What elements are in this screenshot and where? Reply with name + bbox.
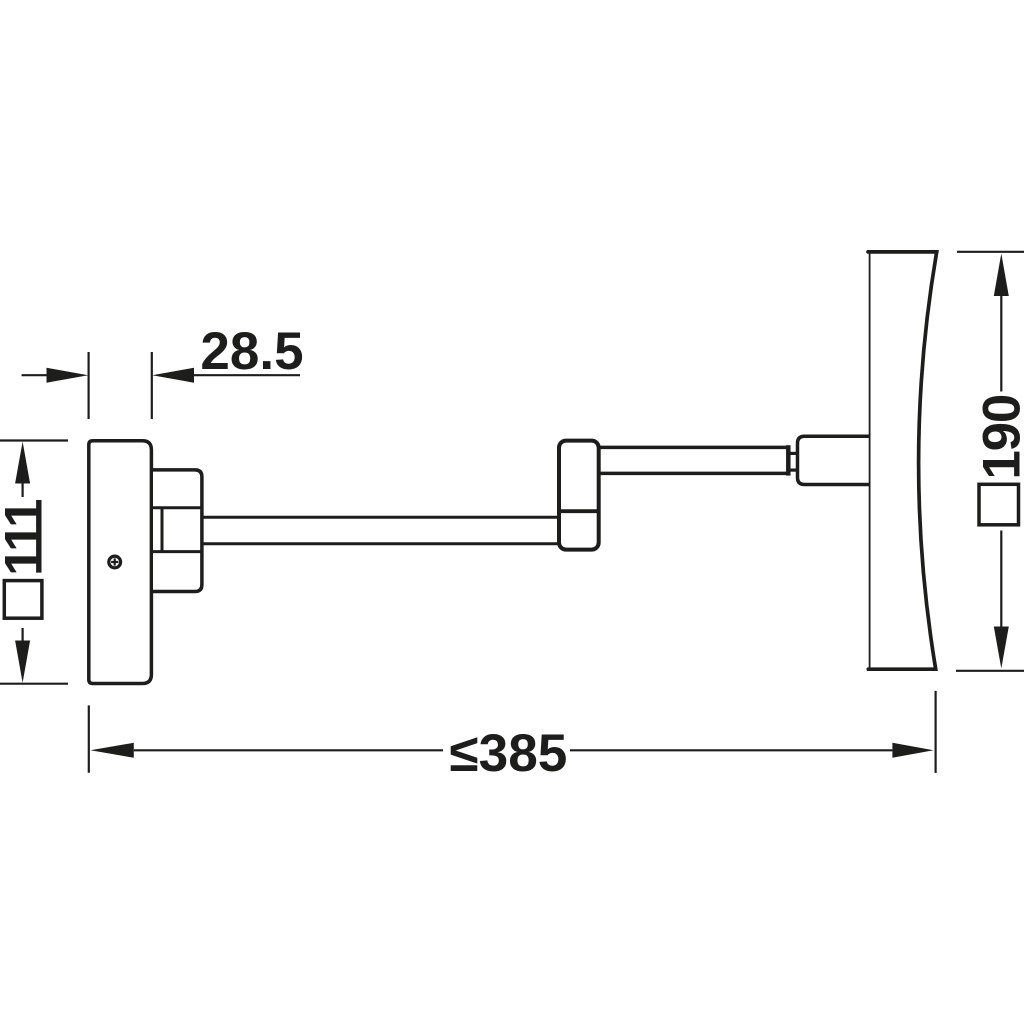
svg-text:111: 111 (0, 500, 54, 576)
svg-text:28.5: 28.5 (200, 322, 303, 381)
svg-text:≤385: ≤385 (449, 724, 567, 783)
svg-text:190: 190 (973, 395, 1024, 480)
